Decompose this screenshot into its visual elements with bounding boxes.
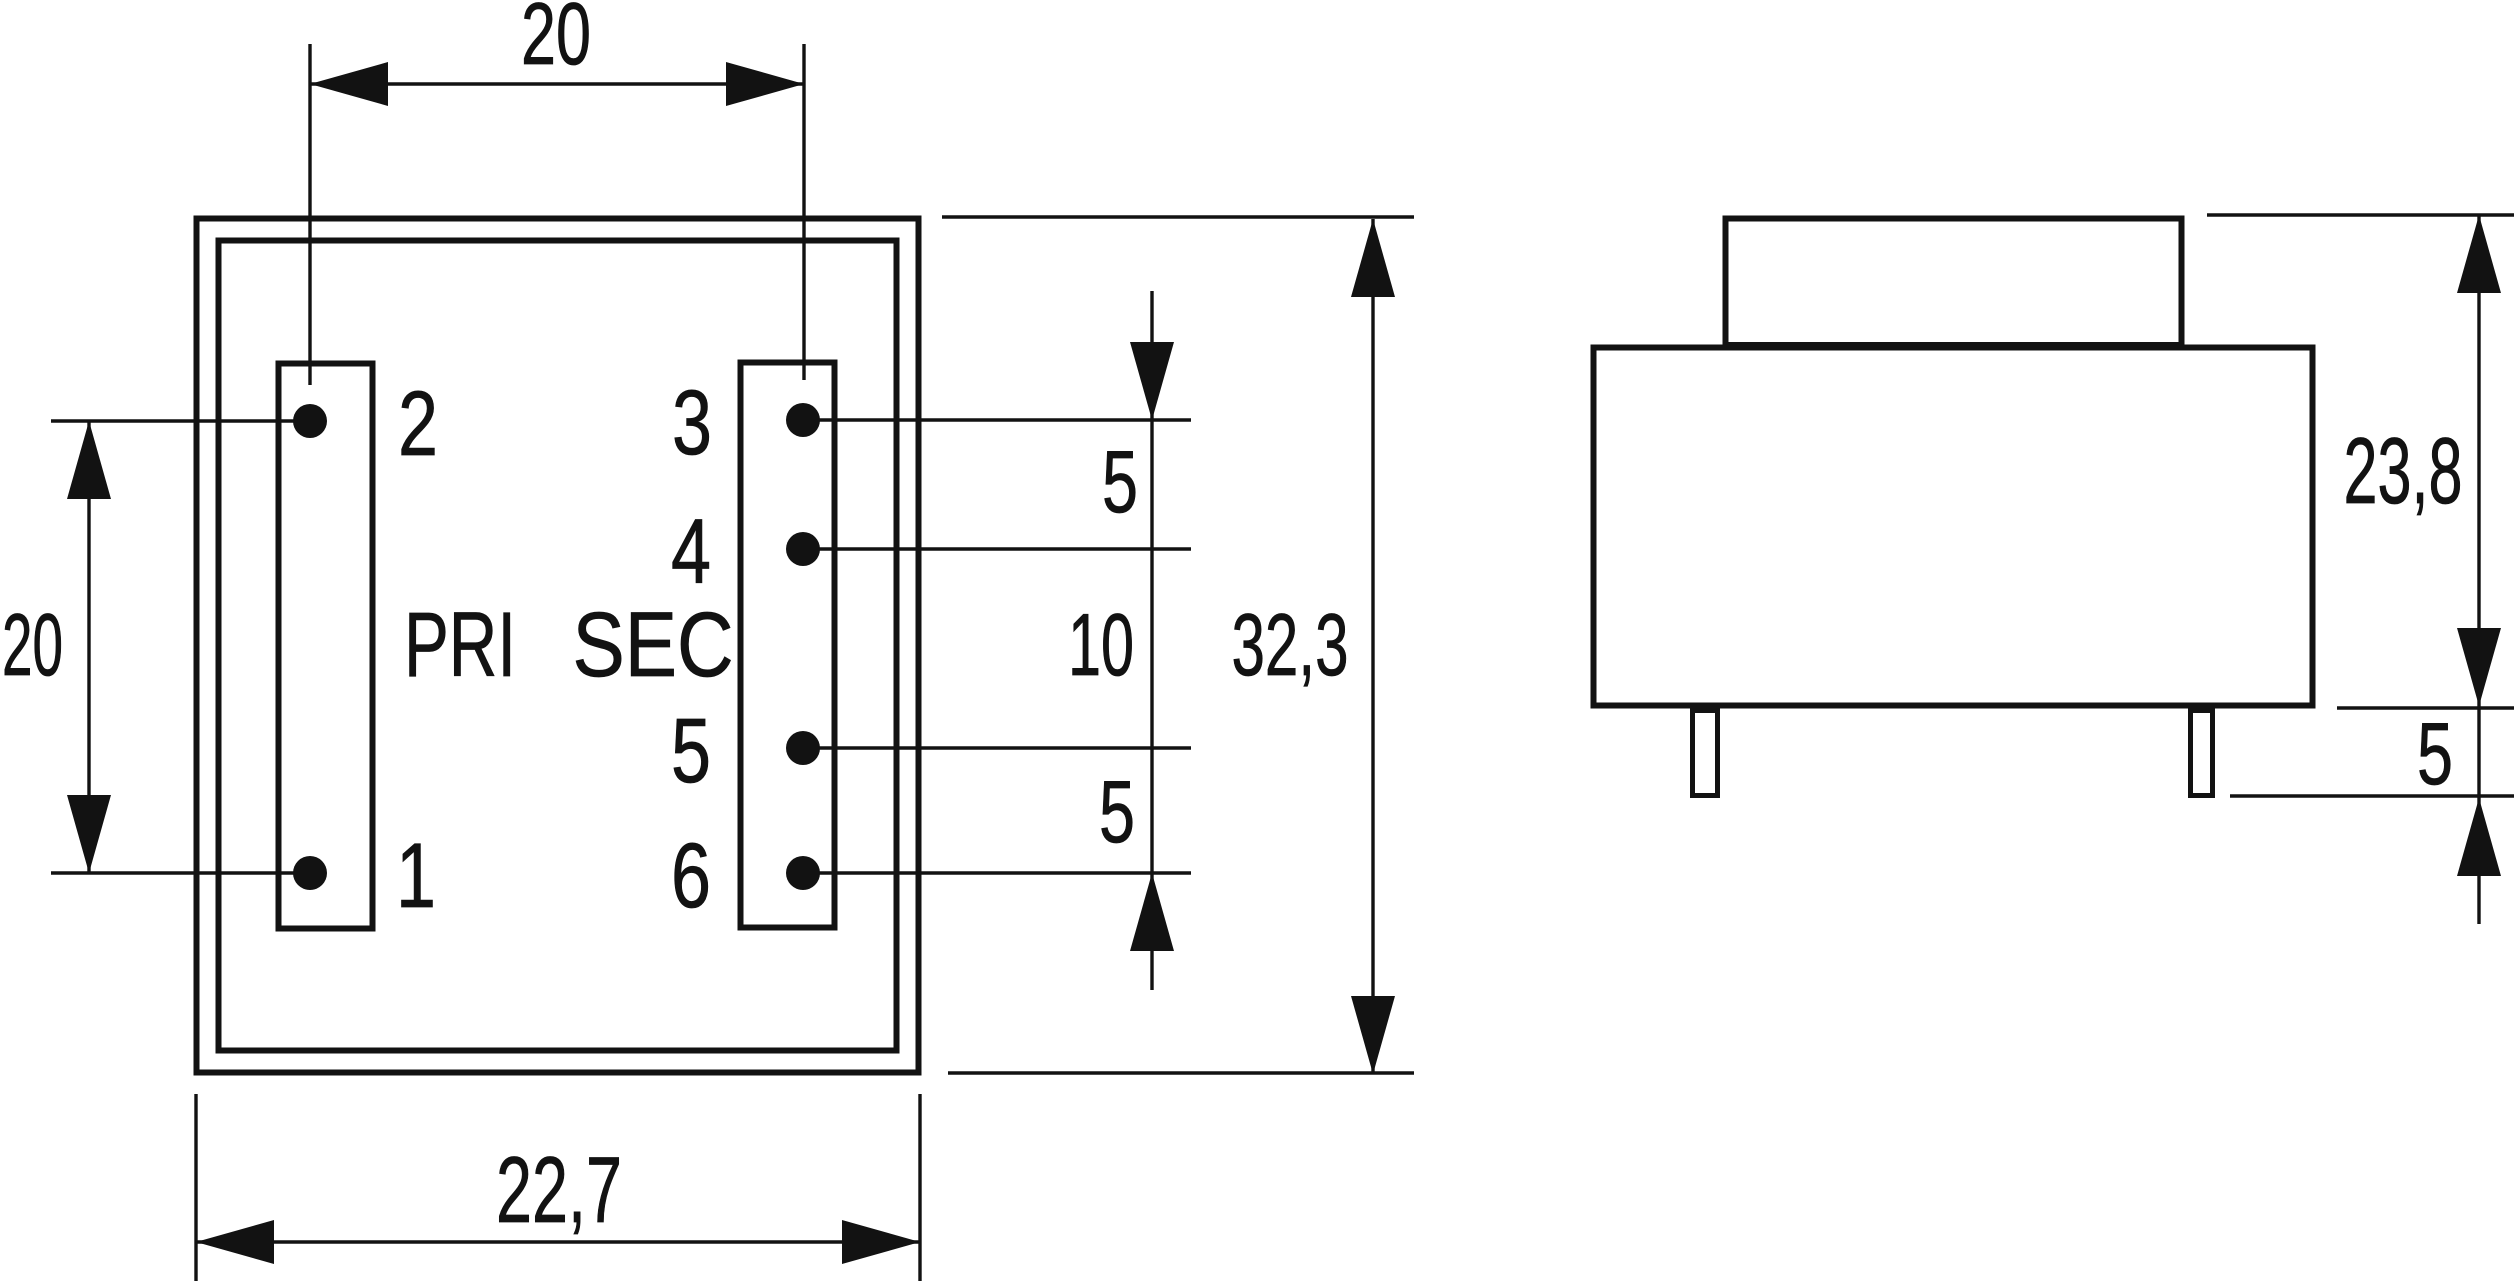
svg-text:32,3: 32,3 bbox=[1232, 595, 1349, 694]
dimension line 5 right bbox=[2477, 706, 2480, 924]
extension line pin2 top bbox=[308, 44, 311, 385]
right solder pin (side view) bbox=[2191, 711, 2213, 796]
svg-text:PRI: PRI bbox=[404, 594, 516, 696]
dimension line 32,3 bbox=[1371, 219, 1374, 1074]
arrowhead 22,7 right bbox=[842, 1220, 920, 1264]
pin 1 dot bbox=[293, 856, 327, 890]
svg-text:22,7: 22,7 bbox=[496, 1137, 622, 1242]
transformer top cap (side view) bbox=[1726, 219, 2182, 346]
arrowhead 32,3 down bbox=[1351, 996, 1395, 1074]
dimension line 20 left bbox=[87, 421, 90, 873]
dimension line 23,8 bbox=[2477, 215, 2480, 706]
arrowhead 5 right up bbox=[2457, 798, 2501, 876]
svg-text:2: 2 bbox=[398, 373, 438, 475]
extension line pin5 right bbox=[803, 746, 1191, 749]
svg-text:3: 3 bbox=[672, 372, 712, 474]
arrowhead 20 top left bbox=[310, 62, 388, 106]
arrowhead 23,8 up bbox=[2457, 215, 2501, 293]
arrowhead 22,7 left bbox=[196, 1220, 274, 1264]
svg-text:6: 6 bbox=[671, 825, 711, 927]
arrowhead 5-10-5 down bbox=[1130, 342, 1174, 420]
svg-text:23,8: 23,8 bbox=[2344, 418, 2463, 523]
extension line pin bottom right bbox=[2230, 794, 2514, 797]
dimension line 20 top bbox=[310, 82, 804, 85]
svg-text:SEC: SEC bbox=[573, 594, 734, 696]
extension line 32,3 top bbox=[942, 215, 1414, 218]
arrowhead 20 top right bbox=[726, 62, 804, 106]
arrowhead 20 left up bbox=[67, 421, 111, 499]
transformer main body (side view) bbox=[1594, 348, 2313, 706]
svg-text:4: 4 bbox=[671, 501, 711, 603]
dimension line 5-10-5 bbox=[1150, 291, 1153, 990]
left solder pin (side view) bbox=[1693, 711, 1718, 796]
extension line pin1 left bbox=[51, 871, 310, 874]
pin 3 dot bbox=[786, 403, 820, 437]
pin 5 dot bbox=[786, 731, 820, 765]
pin 2 dot bbox=[293, 404, 327, 438]
arrowhead 23,8 down bbox=[2457, 628, 2501, 706]
secondary pin strip bbox=[741, 363, 835, 928]
extension line 22,7 left bbox=[194, 1094, 197, 1281]
svg-text:1: 1 bbox=[396, 825, 436, 927]
extension line pin6 right bbox=[803, 871, 1191, 874]
extension line pin2 left bbox=[51, 419, 310, 422]
svg-text:20: 20 bbox=[2, 595, 63, 694]
transformer body inner outline (top view) bbox=[219, 241, 897, 1051]
primary pin strip bbox=[279, 364, 373, 929]
extension line 23,8 top bbox=[2207, 213, 2514, 216]
svg-text:5: 5 bbox=[1099, 762, 1135, 861]
extension line pin3 top bbox=[802, 44, 805, 380]
extension line pin3 right bbox=[803, 418, 1191, 421]
extension line 32,3 bottom bbox=[948, 1071, 1414, 1074]
svg-text:5: 5 bbox=[2417, 704, 2453, 803]
arrowhead 32,3 up bbox=[1351, 219, 1395, 297]
extension line pin4 right bbox=[803, 547, 1191, 550]
dimension line 22,7 bbox=[196, 1240, 920, 1243]
svg-text:5: 5 bbox=[671, 700, 711, 802]
svg-text:20: 20 bbox=[521, 0, 591, 83]
pin 4 dot bbox=[786, 532, 820, 566]
pin 6 dot bbox=[786, 856, 820, 890]
extension line body bottom right bbox=[2337, 706, 2514, 709]
extension line 22,7 right bbox=[918, 1094, 921, 1281]
arrowhead 20 left down bbox=[67, 795, 111, 873]
transformer body outer outline (top view) bbox=[197, 219, 919, 1073]
arrowhead 5-10-5 up bbox=[1130, 873, 1174, 951]
svg-text:10: 10 bbox=[1068, 595, 1134, 694]
svg-text:5: 5 bbox=[1102, 432, 1138, 531]
